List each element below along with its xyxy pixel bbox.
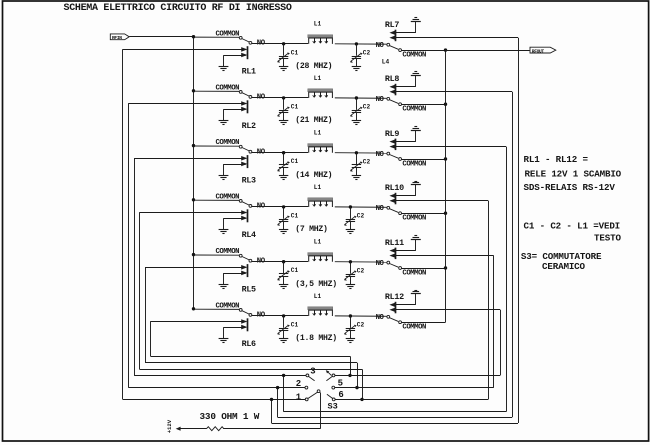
wire node B stage 5	[335, 261, 387, 263]
inductor L1 core stage 2	[308, 89, 333, 92]
svg-text:RL11: RL11	[385, 238, 404, 248]
junction S3 contact 6	[360, 398, 363, 401]
junction C1 stage 5	[282, 260, 285, 263]
contact NO RL4	[249, 205, 252, 208]
junction bus stage 1	[192, 35, 195, 38]
switch arm RL10	[390, 209, 399, 213]
junction S3 contact 3	[282, 374, 285, 377]
svg-text:2: 2	[296, 379, 301, 389]
svg-text:RL3: RL3	[242, 176, 256, 186]
junction bus stage 5	[192, 253, 195, 256]
wire RL2 coil top to return	[128, 103, 245, 105]
switch arm RL12	[390, 318, 399, 322]
svg-text:NO: NO	[376, 314, 385, 322]
svg-text:1: 1	[296, 393, 302, 403]
wire node A stage 2	[252, 97, 308, 99]
rotary switch S3 contact 4	[332, 374, 335, 377]
wire node A stage 1	[252, 43, 308, 45]
wire S3 pole down	[320, 393, 322, 429]
svg-text:L1: L1	[314, 184, 322, 191]
switch arm RL11	[390, 264, 399, 268]
svg-text:C2: C2	[363, 158, 371, 165]
svg-text:L4: L4	[382, 59, 390, 66]
wire RL8 coil bottom to return	[396, 91, 512, 93]
wire COMMON RL8 to bus	[402, 104, 446, 106]
wire RL3 coil bottom	[224, 164, 246, 166]
svg-text:(3,5 MHZ): (3,5 MHZ)	[295, 279, 337, 289]
wire RL7 coil bottom to return	[396, 37, 518, 39]
junction bus stage 6	[192, 307, 195, 310]
wire COMMON feed RL5	[194, 254, 240, 256]
contact COMMON RL2	[239, 91, 242, 94]
inductor L1 winding stage 4	[309, 201, 333, 207]
wire RL9 coil top	[396, 141, 416, 143]
switch arm RL4	[242, 202, 249, 205]
junction C1 stage 3	[282, 151, 285, 154]
wire return vertical RL6	[150, 321, 152, 356]
junction right bus stage 4	[444, 212, 447, 215]
svg-text:C1 - C2 - L1 =VEDI: C1 - C2 - L1 =VEDI	[524, 221, 621, 232]
wire RFOUT	[446, 50, 530, 52]
svg-text:RL4: RL4	[242, 230, 256, 240]
contact NO RL10	[387, 206, 390, 209]
svg-text:C1: C1	[291, 103, 299, 110]
svg-text:L1: L1	[314, 293, 322, 300]
wire return vertical RL3	[134, 158, 136, 375]
svg-text:RL5: RL5	[242, 285, 256, 295]
rotary switch S3 contact 3	[306, 374, 309, 377]
svg-text:L1: L1	[314, 75, 322, 82]
wire node B stage 4	[335, 206, 387, 208]
wire return vertical RL8	[512, 92, 514, 417]
svg-text:6: 6	[338, 390, 343, 400]
inductor L1 winding stage 1	[309, 38, 333, 44]
wire return vertical RL2	[128, 103, 130, 387]
relay coil RL5	[247, 264, 249, 277]
svg-text:C1: C1	[291, 158, 299, 165]
wire pole to resistor	[223, 428, 320, 430]
svg-text:RL1: RL1	[242, 67, 256, 77]
svg-text:RL6: RL6	[242, 339, 256, 349]
relay coil RL12	[395, 302, 397, 314]
ground RL7 coil	[415, 21, 417, 32]
wire S3 contact 5 to RL11 return	[335, 387, 494, 389]
svg-text:3: 3	[310, 367, 315, 377]
wire node A stage 5	[252, 261, 308, 263]
svg-text:C2: C2	[357, 213, 365, 220]
wire RL3 coil top to return	[134, 158, 246, 160]
rotary switch S3 rotation arrow	[328, 372, 332, 375]
contact NO RL11	[387, 261, 390, 264]
capacitor C1 stage 6	[283, 316, 285, 328]
inductor L1 core stage 6	[308, 307, 333, 310]
wire RL1 coil top to return	[123, 49, 246, 51]
contact NO RL9	[387, 152, 390, 155]
wire S3 contact 5 drop	[357, 363, 359, 388]
junction right bus stage 1	[444, 48, 447, 51]
svg-text:C2: C2	[363, 104, 371, 111]
contact COMMON RL3	[239, 145, 242, 148]
ground RL1 coil	[223, 55, 225, 66]
switch arm RL3	[242, 148, 249, 151]
wire RL10 coil top	[396, 195, 416, 197]
svg-text:C1: C1	[291, 49, 299, 56]
wire return vertical RL1	[122, 49, 124, 399]
ground RL2 coil	[223, 109, 225, 120]
contact NO RL3	[249, 150, 252, 153]
svg-text:L1: L1	[314, 21, 322, 28]
spoke S3 contact 3	[309, 376, 315, 380]
node RFOUT output tag	[530, 47, 556, 53]
ground RL11 coil	[415, 239, 417, 250]
svg-text:RL10: RL10	[385, 183, 404, 193]
contact NO RL6	[249, 314, 252, 317]
ground RL4 coil	[223, 218, 225, 229]
junction C1 stage 1	[282, 42, 285, 45]
wire RL2 coil bottom	[224, 109, 246, 111]
wire COMMON feed RL3	[194, 145, 240, 147]
wire RL6 coil top to return	[151, 321, 246, 323]
svg-text:NO: NO	[376, 205, 385, 213]
capacitor C2 stage 3	[356, 153, 358, 165]
wire bottom run to RL8 return	[278, 417, 512, 419]
capacitor C1 stage 3	[283, 153, 285, 165]
spoke S3 contact 6	[327, 394, 333, 398]
contact COMMON RL8	[399, 103, 402, 106]
svg-text:(21 MHZ): (21 MHZ)	[295, 115, 332, 125]
wire bottom run to RL7 return	[272, 423, 519, 425]
relay coil RL2	[247, 100, 249, 113]
svg-text:COMMON: COMMON	[216, 139, 240, 147]
wire COMMON feed RL4	[194, 199, 240, 201]
wire COMMON RL12 to bus	[402, 322, 446, 324]
contact COMMON RL12	[399, 321, 402, 324]
ground RL8 coil	[415, 75, 417, 86]
wire left common bus vertical	[193, 37, 195, 309]
junction C1 stage 2	[282, 96, 285, 99]
wire COMMON RL10 to bus	[402, 213, 446, 215]
wire return vertical RL12	[500, 310, 502, 376]
inductor L1 core stage 3	[308, 144, 333, 147]
rotary switch S3 contact 2	[305, 386, 308, 389]
svg-text:RFOUT: RFOUT	[532, 48, 545, 54]
node RFIN input tag	[110, 34, 129, 40]
wire RL10 coil bottom to return	[396, 200, 488, 202]
contact COMMON RL5	[239, 254, 242, 257]
wire S3 left contact 3 drop	[283, 375, 285, 411]
svg-text:COMMON: COMMON	[402, 160, 426, 168]
capacitor C2 stage 5	[350, 262, 352, 274]
wire return vertical RL9	[506, 147, 508, 412]
ground RL6 coil	[223, 327, 225, 338]
contact COMMON RL11	[399, 267, 402, 270]
contact COMMON RL6	[239, 309, 242, 312]
contact COMMON RL1	[239, 36, 242, 39]
wire RL11 coil top	[396, 250, 416, 252]
svg-text:COMMON: COMMON	[402, 106, 426, 114]
switch arm RL9	[390, 155, 399, 159]
wire S3 left contact 2 drop	[277, 388, 279, 418]
wire return vertical RL4	[139, 212, 141, 369]
rotary switch S3 wiper arm	[308, 392, 318, 398]
capacitor C1 stage 5	[283, 262, 285, 274]
inductor L1 core stage 1	[308, 35, 333, 38]
svg-text:C1: C1	[291, 212, 299, 219]
spoke S3 contact 4	[326, 376, 332, 380]
junction S3 contact 2	[276, 386, 279, 389]
wire COMMON feed RL2	[194, 90, 240, 92]
ground RL10 coil	[415, 184, 417, 195]
rotary switch S3 contact 5	[332, 386, 335, 389]
capacitor C2 stage 6	[350, 316, 352, 328]
node +12V supply arrow	[176, 427, 181, 431]
contact NO RL1	[249, 41, 252, 44]
inductor L1 core stage 5	[308, 253, 333, 256]
wire COMMON feed RL6	[194, 308, 240, 310]
wire node B stage 1	[335, 43, 387, 45]
svg-text:RL12: RL12	[385, 292, 404, 302]
junction C1 stage 4	[282, 205, 285, 208]
contact NO RL5	[249, 259, 252, 262]
relay coil RL8	[395, 84, 397, 96]
junction bus stage 3	[192, 144, 195, 147]
contact NO RL7	[387, 43, 390, 46]
wire resistor to +12V arrow	[180, 428, 207, 430]
svg-text:COMMON: COMMON	[216, 30, 240, 38]
svg-text:COMMON: COMMON	[402, 215, 426, 223]
inductor L1 core stage 4	[308, 198, 333, 201]
ground RL12 coil	[415, 293, 417, 304]
wire COMMON RL9 to bus	[402, 159, 446, 161]
svg-text:C2: C2	[357, 322, 365, 329]
switch arm RL5	[242, 257, 249, 260]
inductor L1 winding stage 5	[309, 256, 333, 262]
svg-text:COMMON: COMMON	[216, 302, 240, 310]
wire RL1 coil bottom	[224, 55, 246, 57]
contact COMMON RL10	[399, 212, 402, 215]
relay coil RL10	[395, 193, 397, 205]
wire S3 contact 6 to RL12 return	[335, 399, 488, 401]
svg-text:COMMON: COMMON	[216, 248, 240, 256]
svg-text:C1: C1	[291, 321, 299, 328]
wire RL8 coil top	[396, 86, 416, 88]
svg-text:CERAMICO: CERAMICO	[542, 261, 586, 272]
capacitor C2 stage 4	[350, 207, 352, 219]
contact NO RL8	[387, 97, 390, 100]
wire COMMON RL7 to bus	[402, 50, 446, 52]
switch arm RL2	[242, 93, 249, 96]
junction right bus stage 3	[444, 157, 447, 160]
svg-text:COMMON: COMMON	[402, 52, 426, 60]
wire return vertical RL5	[145, 267, 147, 363]
rotary switch S3 wiper pivot	[317, 390, 320, 393]
svg-text:(28 MHZ): (28 MHZ)	[295, 61, 332, 71]
wire S3 contact 4 drop	[350, 356, 352, 375]
svg-text:330 OHM 1 W: 330 OHM 1 W	[200, 411, 260, 422]
wire S3 left contact 1 drop	[271, 399, 273, 423]
svg-text:COMMON: COMMON	[216, 84, 240, 92]
wire node A stage 6	[252, 315, 308, 317]
wire RL4 coil top to return	[140, 212, 246, 214]
wire node A stage 3	[252, 152, 308, 154]
resistor R1 330 OHM 1 W	[207, 427, 224, 431]
svg-text:COMMON: COMMON	[216, 193, 240, 201]
svg-text:NO: NO	[376, 151, 385, 159]
switch arm RL1	[242, 39, 249, 42]
wire RL11 coil bottom to return	[396, 255, 494, 257]
svg-text:RL2: RL2	[242, 121, 256, 131]
svg-text:NO: NO	[376, 96, 385, 104]
svg-text:S3: S3	[328, 402, 338, 412]
capacitor C1 stage 1	[283, 44, 285, 56]
wire RL12 coil top	[396, 304, 416, 306]
contact NO RL2	[249, 96, 252, 99]
relay coil RL4	[247, 209, 249, 222]
wire RL6 coil bottom	[224, 327, 246, 329]
wire RFIN to bus	[129, 36, 193, 38]
inductor L1 winding stage 2	[309, 92, 333, 98]
junction C2 stage 3	[355, 151, 358, 154]
junction S3 contact 5	[355, 386, 358, 389]
relay coil RL11	[395, 248, 397, 260]
inductor L1 winding stage 6	[309, 310, 333, 316]
wire node A stage 4	[252, 206, 308, 208]
junction C2 stage 4	[349, 205, 352, 208]
contact COMMON RL9	[399, 158, 402, 161]
svg-text:RELE 12V 1 SCAMBIO: RELE 12V 1 SCAMBIO	[525, 168, 622, 179]
wire RL5 coil top to return	[145, 267, 246, 269]
svg-text:5: 5	[338, 378, 343, 388]
relay coil RL6	[247, 318, 249, 331]
svg-text:COMMON: COMMON	[402, 269, 426, 277]
wire return vertical RL11	[493, 256, 495, 388]
svg-text:(1.8 MHZ): (1.8 MHZ)	[295, 333, 337, 343]
svg-text:RFIN: RFIN	[112, 35, 122, 41]
wire return horizontal RL5	[145, 362, 357, 364]
svg-text:C1: C1	[291, 267, 299, 274]
svg-text:(7 MHZ): (7 MHZ)	[295, 224, 327, 234]
svg-text:NO: NO	[376, 260, 385, 268]
junction C2 stage 2	[355, 96, 358, 99]
svg-text:C2: C2	[363, 49, 371, 56]
wire return vertical RL7	[518, 38, 520, 423]
wire right common bus vertical	[445, 50, 447, 322]
wire S3 contact 6 drop	[362, 369, 364, 399]
ground RL5 coil	[223, 273, 225, 284]
wire return horizontal RL3	[134, 375, 306, 377]
rotary switch S3 contact 6	[332, 398, 335, 401]
junction C2 stage 6	[349, 314, 352, 317]
junction S3 contact 1	[270, 398, 273, 401]
wire RL9 coil bottom to return	[396, 146, 506, 148]
wire COMMON feed RL1	[194, 36, 240, 38]
svg-text:C2: C2	[357, 267, 365, 274]
junction right bus stage 2	[444, 103, 447, 106]
capacitor C2 stage 1	[356, 44, 358, 56]
wire bottom run to RL9 return	[284, 411, 506, 413]
svg-text:RL7: RL7	[385, 20, 399, 30]
junction S3 contact 4	[348, 374, 351, 377]
svg-text:RL9: RL9	[385, 129, 399, 139]
svg-text:+12V: +12V	[166, 419, 173, 433]
wire return horizontal RL1	[123, 399, 306, 401]
junction C2 stage 5	[349, 260, 352, 263]
capacitor C1 stage 4	[283, 207, 285, 219]
ground RL9 coil	[415, 130, 417, 141]
wire node B stage 6	[335, 315, 387, 317]
wire return horizontal RL6	[151, 356, 351, 358]
junction C2 stage 1	[355, 42, 358, 45]
svg-text:SCHEMA ELETTRICO CIRCUITO RF D: SCHEMA ELETTRICO CIRCUITO RF DI INGRESSO	[64, 3, 292, 14]
junction bus stage 4	[192, 198, 195, 201]
wire RL4 coil bottom	[224, 218, 246, 220]
rotary switch S3 contact 1	[305, 398, 308, 401]
wire RL12 coil bottom to return	[396, 309, 500, 311]
svg-text:L1: L1	[314, 239, 322, 246]
switch arm RL7	[390, 46, 399, 50]
relay coil RL3	[247, 155, 249, 168]
contact NO RL12	[387, 315, 390, 318]
junction bus stage 2	[192, 89, 195, 92]
contact COMMON RL7	[399, 49, 402, 52]
svg-text:COMMON: COMMON	[402, 324, 426, 332]
relay coil RL7	[395, 30, 397, 42]
contact COMMON RL4	[239, 200, 242, 203]
switch arm RL6	[242, 311, 249, 314]
capacitor C1 stage 2	[283, 98, 285, 110]
relay coil RL9	[395, 139, 397, 151]
wire node B stage 3	[335, 152, 387, 154]
svg-text:RL8: RL8	[385, 74, 399, 84]
wire return horizontal RL2	[128, 387, 305, 389]
junction right bus stage 5	[444, 266, 447, 269]
svg-text:SDS-RELAIS RS-12V: SDS-RELAIS RS-12V	[524, 182, 616, 193]
svg-text:(14 MHZ): (14 MHZ)	[295, 170, 332, 180]
wire node B stage 2	[335, 97, 387, 99]
wire COMMON RL11 to bus	[402, 268, 446, 270]
junction C1 stage 6	[282, 314, 285, 317]
wire return vertical RL10	[488, 201, 490, 400]
capacitor C2 stage 2	[356, 98, 358, 110]
wire return horizontal RL4	[140, 369, 363, 371]
svg-text:TESTO: TESTO	[594, 232, 621, 243]
switch arm RL8	[390, 100, 399, 104]
wire RL7 coil top	[396, 32, 416, 34]
wire S3 contact 4 to RL10 return	[335, 375, 500, 377]
inductor L1 winding stage 3	[309, 147, 333, 153]
ground RL3 coil	[223, 164, 225, 175]
relay coil RL1	[247, 46, 249, 59]
svg-text:RL1 - RL12 =: RL1 - RL12 =	[524, 154, 589, 165]
svg-text:NO: NO	[376, 42, 385, 50]
svg-text:L1: L1	[314, 130, 322, 137]
wire RL5 coil bottom	[224, 273, 246, 275]
